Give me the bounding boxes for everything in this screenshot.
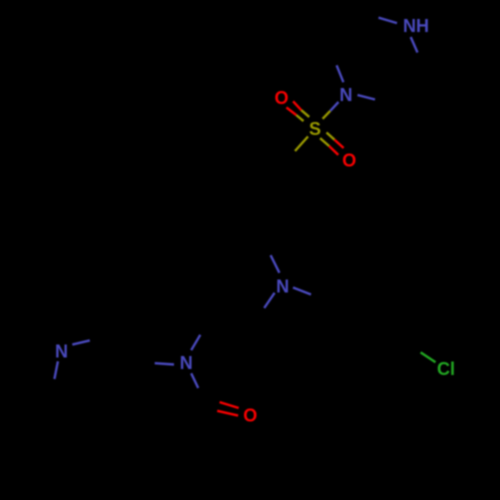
svg-text:N: N bbox=[55, 342, 68, 362]
svg-text:N: N bbox=[340, 85, 353, 105]
svg-text:O: O bbox=[243, 405, 257, 425]
svg-text:S: S bbox=[309, 119, 321, 139]
svg-text:O: O bbox=[342, 150, 356, 170]
svg-text:NH: NH bbox=[403, 16, 429, 36]
svg-text:N: N bbox=[180, 353, 193, 373]
svg-text:N: N bbox=[276, 277, 289, 297]
svg-text:Cl: Cl bbox=[437, 359, 455, 379]
svg-text:O: O bbox=[274, 88, 288, 108]
